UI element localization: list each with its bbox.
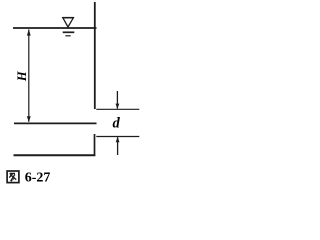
right wall upper segment [94, 2, 96, 109]
extension line bottom of slot [96, 136, 139, 138]
caption text 6-27 [25, 170, 51, 185]
svg-text:H: H [15, 70, 29, 82]
dimension line H [27, 29, 31, 122]
water surface symbol (nabla) [62, 18, 74, 27]
extension line top of slot [96, 108, 139, 110]
surface hatch line 2 [65, 35, 70, 37]
svg-text:6-27: 6-27 [25, 170, 51, 185]
label d [112, 115, 120, 131]
caption glyph 图 [7, 171, 19, 183]
svg-text:d: d [112, 115, 120, 131]
surface hatch line 1 [63, 31, 75, 33]
dimension arrow d upper [116, 91, 120, 109]
free surface line [13, 27, 97, 29]
right wall lower segment [94, 134, 96, 156]
dimension arrow d lower [116, 137, 120, 155]
tank bottom line [14, 122, 97, 124]
floor line [14, 154, 96, 156]
label H [15, 70, 29, 82]
